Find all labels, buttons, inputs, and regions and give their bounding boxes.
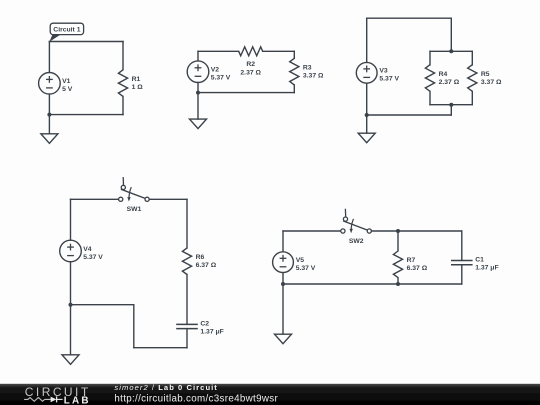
svg-text:1.37 μF: 1.37 μF [475, 265, 498, 272]
svg-text:5.37 V: 5.37 V [296, 265, 316, 272]
svg-text:V3: V3 [379, 68, 388, 75]
svg-text:R4: R4 [439, 71, 448, 78]
svg-text:2.37 Ω: 2.37 Ω [439, 79, 460, 86]
svg-text:C1: C1 [475, 257, 484, 264]
svg-text:http://circuitlab.com/c3sre4bw: http://circuitlab.com/c3sre4bwt9wsr [114, 394, 278, 405]
svg-text:V5: V5 [296, 257, 305, 264]
svg-text:SW2: SW2 [349, 238, 364, 245]
svg-text:5.37 V: 5.37 V [211, 75, 231, 82]
svg-text:6.37 Ω: 6.37 Ω [407, 265, 428, 272]
svg-text:V2: V2 [211, 67, 220, 74]
svg-text:R5: R5 [481, 71, 490, 78]
svg-text:R6: R6 [196, 254, 205, 261]
svg-text:C2: C2 [200, 320, 209, 327]
svg-text:V4: V4 [83, 246, 92, 253]
svg-text:5.37 V: 5.37 V [379, 76, 399, 83]
svg-text:2.37 Ω: 2.37 Ω [240, 70, 261, 77]
svg-text:1.37 μF: 1.37 μF [200, 328, 223, 335]
svg-text:R2: R2 [246, 61, 255, 68]
svg-text:3.37 Ω: 3.37 Ω [481, 79, 502, 86]
svg-text:R3: R3 [303, 64, 312, 71]
svg-text:simoer2 / Lab 0 Circuit: simoer2 / Lab 0 Circuit [114, 383, 217, 392]
svg-text:LAB: LAB [64, 395, 91, 405]
svg-text:6.37 Ω: 6.37 Ω [196, 262, 217, 269]
svg-text:5.37 V: 5.37 V [83, 254, 103, 261]
svg-text:1 Ω: 1 Ω [132, 84, 144, 91]
svg-text:3.37 Ω: 3.37 Ω [303, 72, 324, 79]
svg-text:V1: V1 [62, 78, 71, 85]
svg-text:Circuit 1: Circuit 1 [53, 27, 80, 34]
svg-text:SW1: SW1 [127, 206, 142, 213]
svg-text:R7: R7 [407, 257, 416, 264]
svg-text:R1: R1 [132, 76, 141, 83]
svg-text:5 V: 5 V [62, 86, 73, 93]
